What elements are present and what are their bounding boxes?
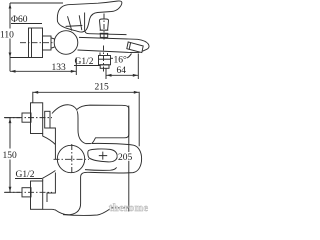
label 16deg <box>111 54 132 66</box>
handle lever blade (side view) <box>57 1 121 32</box>
column left collar stubs <box>43 134 56 182</box>
label G1/2 (side view) <box>74 57 100 67</box>
svg-text:therome: therome <box>109 203 149 214</box>
body neck dome and column right edge (front view) <box>47 105 86 202</box>
handle neck (side view) <box>66 15 83 30</box>
diverter centerline <box>103 14 105 42</box>
svg-text:133: 133 <box>52 63 67 73</box>
bottom wall escutcheon (front view) <box>31 181 55 210</box>
svg-text:16°: 16° <box>114 55 128 66</box>
svg-text:205: 205 <box>118 153 133 163</box>
dimension 150 <box>2 118 20 193</box>
dimension 110 extension line top <box>10 2 63 4</box>
label G1/2 (front view) <box>15 170 42 180</box>
capsule inner bottom line <box>85 167 117 170</box>
svg-text:64: 64 <box>117 66 127 76</box>
spout end piece (side view) <box>127 42 143 53</box>
bottom union centerline <box>5 191 52 193</box>
bottom eccentric connector (front view) <box>22 188 31 197</box>
dimension 64 <box>106 54 138 80</box>
dimension 205 <box>111 106 135 212</box>
diverter knob (side view) <box>100 19 109 37</box>
svg-text:110: 110 <box>0 31 14 41</box>
spout top edge (side view) <box>79 37 149 52</box>
connection nut (side view) <box>43 36 55 50</box>
top wall escutcheon (front view) <box>31 103 43 134</box>
dimension 110 extension line bottom <box>10 57 30 59</box>
dimension 133 <box>10 58 76 76</box>
shower outlet centerline <box>103 46 105 74</box>
slot crosshair marker <box>99 152 107 160</box>
svg-text:150: 150 <box>3 151 18 161</box>
valve cap circle (front view) <box>57 145 84 172</box>
spout bottom edge (side view) <box>78 50 130 52</box>
spout capsule and bell (front view) <box>55 143 142 215</box>
diverter housing (side view) <box>85 13 127 35</box>
centerline (side view) <box>20 42 57 44</box>
wall escutcheon (side view) <box>29 28 43 58</box>
top eccentric connector (front view) <box>22 113 31 122</box>
dimension 215 <box>33 83 139 147</box>
watermark <box>109 203 149 214</box>
shower outlet fitting (side view) <box>99 53 111 69</box>
label phi60 <box>11 15 42 25</box>
handle (front view) <box>77 105 129 144</box>
circle crosshair centerlines <box>54 144 90 175</box>
top connection nut (front view) <box>45 111 50 128</box>
dimension 110 vertical dimension line <box>9 3 12 71</box>
svg-text:215: 215 <box>95 83 110 93</box>
top union centerline <box>5 117 52 119</box>
valve body circle (side view) <box>54 31 78 55</box>
label 110 <box>0 29 14 41</box>
spout inner slot (front view) <box>88 149 117 162</box>
